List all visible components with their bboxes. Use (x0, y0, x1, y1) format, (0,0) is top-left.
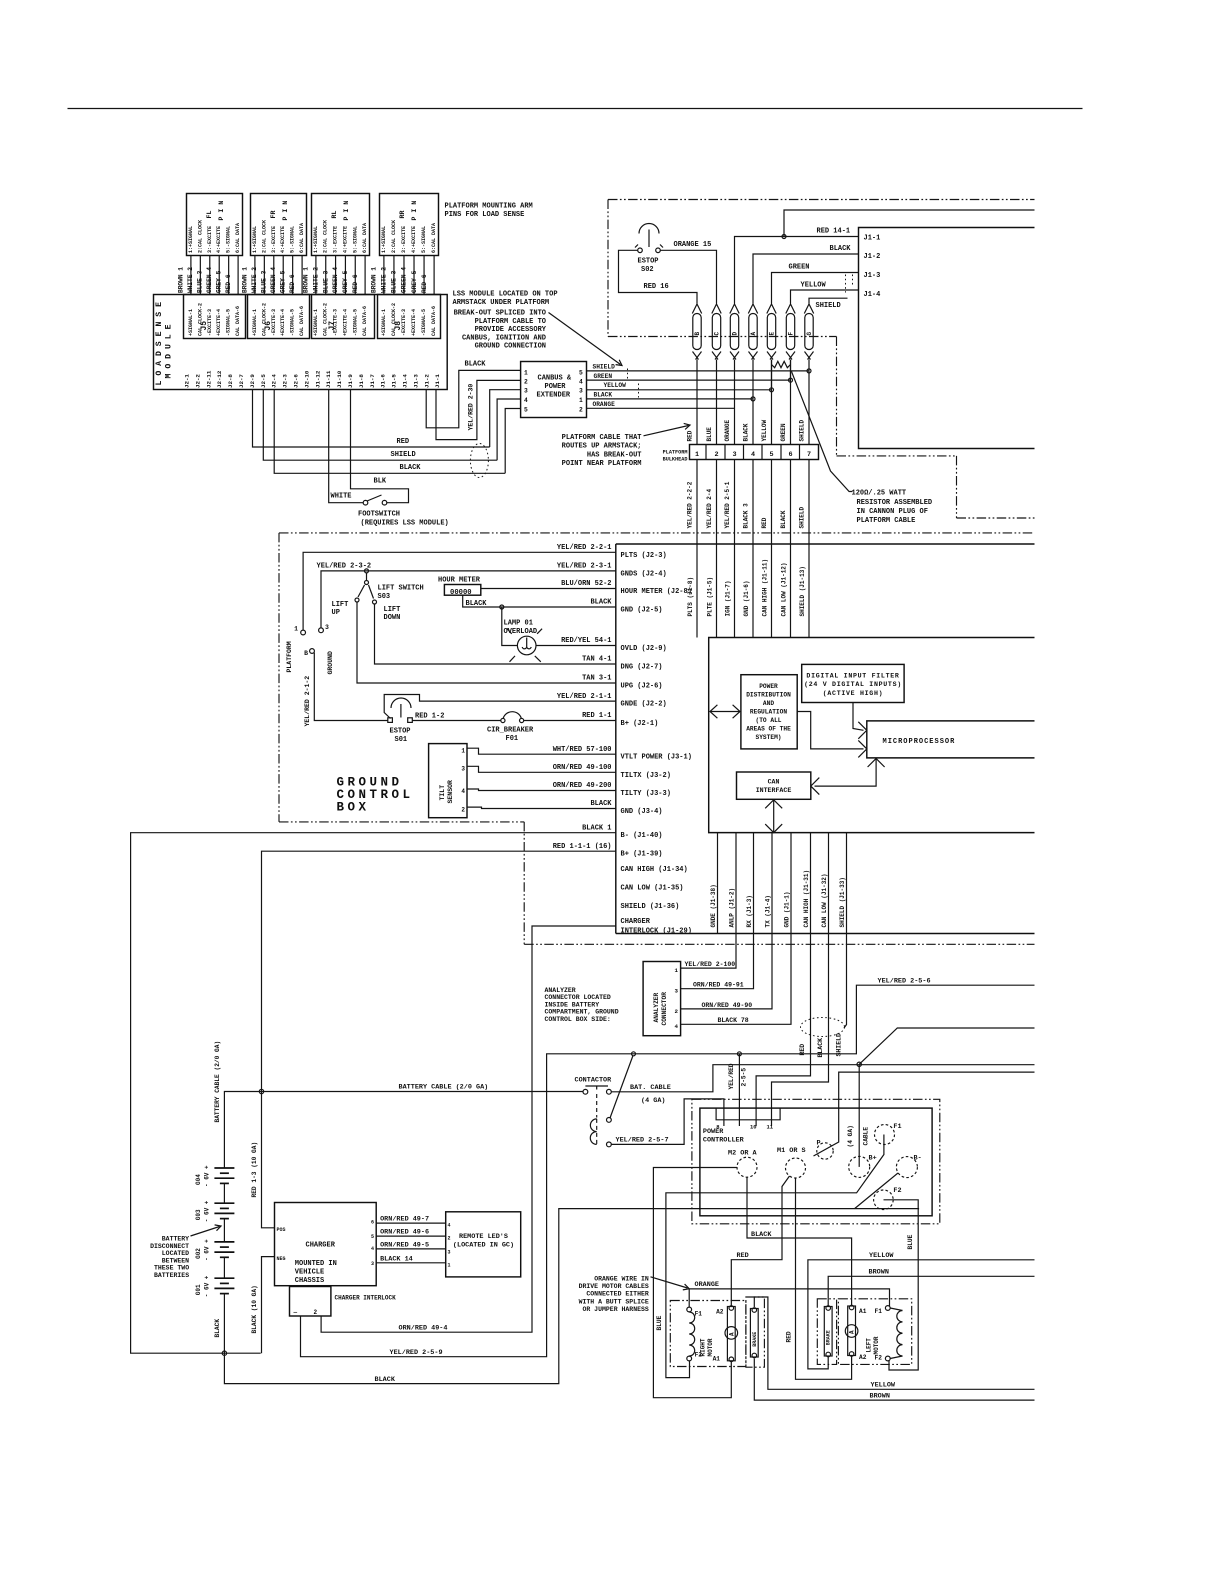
label PLATFORM (vertical) (286, 641, 293, 672)
svg-text:J1-12: J1-12 (314, 370, 321, 388)
svg-text:+EXCITE-4: +EXCITE-4 (280, 309, 286, 336)
svg-text:F2: F2 (893, 1187, 901, 1195)
node GNDS / lift switch feed (365, 569, 369, 573)
svg-text:ORN/RED 49-200: ORN/RED 49-200 (553, 782, 612, 790)
arrow digital input filter to microprocessor (853, 703, 867, 739)
svg-text:J2-3: J2-3 (282, 374, 289, 388)
svg-text:+EXCITE-4: +EXCITE-4 (411, 309, 417, 336)
wire ORN/RED 49-7 (376, 1222, 446, 1224)
connector J8 (load sense module) (378, 295, 441, 339)
label RED vertical (M1 wire) (786, 1331, 793, 1342)
svg-text:ANLP (J1-2): ANLP (J1-2) (729, 888, 736, 928)
svg-text:BLACK 14: BLACK 14 (380, 1256, 413, 1264)
svg-text:F: F (787, 332, 794, 336)
svg-text:6:CAL DATA: 6:CAL DATA (235, 223, 241, 253)
label RED 1-2 (415, 713, 444, 721)
svg-text:SHIELD (J1-33): SHIELD (J1-33) (839, 877, 846, 927)
label BLACK 14 (380, 1256, 413, 1264)
svg-text:PLATFORM CABLE TO: PLATFORM CABLE TO (475, 318, 546, 326)
svg-text:YEL/RED 2-5-1: YEL/RED 2-5-1 (724, 481, 731, 528)
node B+ feed (857, 1062, 861, 1066)
svg-text:CHARGER: CHARGER (306, 1242, 336, 1250)
connector FR PIN (platform mounting arm pin) (251, 194, 307, 256)
label ORN/RED 49-4 (399, 1325, 448, 1333)
svg-text:F1: F1 (893, 1123, 901, 1131)
label BLACK (10 GA) vertical (251, 1285, 258, 1333)
lift switch S03 common (358, 573, 374, 599)
svg-text:S03: S03 (378, 593, 391, 601)
svg-text:4: 4 (448, 1223, 451, 1229)
svg-text:10: 10 (750, 1124, 757, 1131)
node GND row / lamp branch (500, 605, 504, 609)
YELLOW bus wire (587, 389, 772, 391)
cannon plug pin C (712, 304, 721, 360)
label (4 GA) CABLE vertical (847, 1125, 870, 1147)
load sense module box (154, 295, 448, 390)
svg-text:3: 3 (371, 1261, 374, 1267)
label LIFT DOWN (384, 606, 401, 622)
svg-text:7: 7 (807, 451, 811, 459)
svg-text:SHIELD: SHIELD (593, 364, 616, 371)
svg-text:J2-4: J2-4 (271, 374, 278, 388)
wires bulkhead to ground control box (687, 460, 810, 638)
can interface block (737, 772, 811, 799)
svg-text:BLACK: BLACK (830, 245, 852, 253)
svg-text:J1-4: J1-4 (864, 291, 881, 299)
svg-text:P I N: P I N (218, 201, 225, 221)
svg-text:4:+EXCITE: 4:+EXCITE (280, 226, 286, 253)
wires RR pins to J8 (371, 256, 435, 295)
svg-text:4:+EXCITE: 4:+EXCITE (342, 226, 348, 253)
labels controller input pins (687, 559, 806, 617)
svg-text:CANBUS &: CANBUS & (538, 375, 572, 383)
battery G02 (195, 1239, 234, 1261)
label ORN/RED 49-91 (693, 982, 744, 989)
svg-text:-SIGNAL-5: -SIGNAL-5 (352, 309, 358, 336)
label BROWN (bottom) (870, 1393, 890, 1401)
svg-text:BULKHEAD: BULKHEAD (663, 457, 688, 463)
svg-text:A2: A2 (716, 1309, 724, 1316)
wire RED 1-3 node to charger POS (262, 1092, 275, 1228)
svg-text:2:CAL CLOCK: 2:CAL CLOCK (391, 220, 397, 253)
svg-text:RED: RED (687, 430, 694, 441)
wire B+ row RED 1-1-1 to battery cable node (262, 851, 616, 1091)
wire J1-2 to canbus extender pin 1 (BLACK) (426, 370, 520, 427)
svg-text:B+ (J1-39): B+ (J1-39) (621, 851, 663, 859)
svg-text:4: 4 (675, 1023, 679, 1030)
svg-text:3:-EXCITE: 3:-EXCITE (207, 226, 213, 253)
label BLACK (battery negative) (214, 1319, 221, 1338)
wire ORN/RED 49-200 tilt 4 to TILTY (467, 789, 616, 791)
wire YEL/RED 2-1-2 terminal B to estop (314, 653, 388, 721)
svg-text:RED/YEL 54-1: RED/YEL 54-1 (561, 637, 611, 645)
node BLACK-A (751, 397, 755, 401)
svg-text:J2-10: J2-10 (303, 370, 310, 388)
right motor armature (713, 1306, 738, 1363)
svg-text:B- (J1-40): B- (J1-40) (621, 832, 663, 840)
svg-text:3: 3 (325, 624, 329, 631)
arrow microprocessor to can interface (811, 759, 885, 795)
svg-text:LOCATED: LOCATED (162, 1250, 189, 1257)
svg-text:GREEN 4: GREEN 4 (270, 267, 277, 293)
gcb pin name labels (621, 552, 692, 936)
svg-text:A2: A2 (859, 1354, 867, 1361)
svg-text:5: 5 (579, 370, 583, 377)
wire G01 to negative node (223, 1294, 225, 1354)
wire J1-9 to footswitch return (351, 390, 409, 503)
svg-text:YEL/RED 2-1-1: YEL/RED 2-1-1 (557, 693, 612, 701)
svg-text:BLACK: BLACK (590, 599, 612, 607)
label ORN/RED 49-6 (380, 1229, 429, 1237)
label RIGHT MOTOR vertical (700, 1338, 715, 1356)
wire BAT CABLE 4GA contactor to B+ net (611, 1065, 1034, 1092)
wire ORN/RED 49-6 (376, 1235, 446, 1237)
svg-text:+SIGNAL-1: +SIGNAL-1 (381, 309, 387, 336)
svg-text:4: 4 (751, 451, 755, 459)
svg-text:A: A (750, 332, 757, 336)
wire RED 14-1 (pin D to J1-1) (735, 237, 859, 304)
svg-text:GREY 5: GREY 5 (279, 270, 286, 293)
label YELLOW (upper) (869, 1252, 894, 1260)
lift switch contacts (355, 598, 377, 604)
left brake (824, 1306, 832, 1357)
svg-text:EXTENDER: EXTENDER (537, 392, 571, 400)
label BLACK (vertical) (817, 1038, 824, 1058)
svg-text:B: B (304, 650, 308, 657)
double arrow can interface down (765, 800, 782, 833)
wire M2 BLACK to left motor A1 (747, 1177, 852, 1305)
svg-text:P I N: P I N (343, 201, 350, 221)
svg-text:B+ (J2-1): B+ (J2-1) (621, 720, 659, 728)
power controller top bracket (716, 1108, 780, 1120)
bus labels (593, 364, 627, 409)
svg-text:BLACK: BLACK (375, 1376, 396, 1384)
svg-text:UP: UP (332, 609, 340, 617)
svg-text:YEL/RED 2-100: YEL/RED 2-100 (685, 961, 736, 968)
svg-text:2:CAL CLOCK: 2:CAL CLOCK (261, 220, 267, 253)
svg-text:4:+EXCITE: 4:+EXCITE (216, 226, 222, 253)
svg-text:DNG (J2-7): DNG (J2-7) (621, 664, 663, 672)
wire PLTS row to platform terminal 1 (303, 552, 616, 630)
label BATTERY CABLE (2/0 GA) vertical (214, 1041, 221, 1123)
svg-text:GREEN 4: GREEN 4 (332, 267, 339, 293)
wire ORN/RED 49-100 tilt 3 to TILTX (467, 766, 616, 772)
svg-text:J1-3: J1-3 (412, 374, 419, 388)
svg-text:MOTOR: MOTOR (873, 1336, 880, 1354)
svg-text:5: 5 (371, 1234, 374, 1240)
svg-text:YEL/RED 2-4: YEL/RED 2-4 (706, 488, 713, 528)
svg-text:GNDE (J1-38): GNDE (J1-38) (710, 884, 717, 927)
svg-text:YEL/RED 2-1-2: YEL/RED 2-1-2 (304, 676, 311, 727)
stud B- (896, 1155, 921, 1178)
svg-text:BROWN 1: BROWN 1 (303, 267, 310, 293)
connector RR PIN (platform mounting arm pin) (380, 194, 439, 256)
wire BLACK tilt 2 to GND (467, 807, 616, 808)
label ORANGE 15 (674, 241, 712, 249)
svg-text:4:+EXCITE: 4:+EXCITE (411, 226, 417, 253)
label LIFT SWITCH S03 (378, 585, 424, 602)
svg-text:C: C (713, 332, 720, 336)
svg-text:YEL/RED 2-5-7: YEL/RED 2-5-7 (616, 1137, 669, 1145)
svg-text:(ACTIVE HIGH): (ACTIVE HIGH) (823, 690, 884, 697)
svg-text:D: D (731, 332, 738, 336)
svg-text:CHARGER INTERLOCK: CHARGER INTERLOCK (335, 1295, 397, 1302)
remote LEDs DS-1 (446, 1212, 521, 1277)
label GROUND (vertical) (327, 651, 334, 675)
svg-text:DRIVE MOTOR CABLES: DRIVE MOTOR CABLES (579, 1283, 649, 1290)
svg-text:J2-8: J2-8 (227, 374, 234, 388)
BLACK bus wire (587, 398, 754, 400)
svg-text:J2-6: J2-6 (293, 374, 300, 388)
svg-text:J2-2: J2-2 (194, 374, 201, 388)
text LSS MODULE LOCATED ON TOP ARMSTACK UNDER PLATFORM (453, 291, 558, 308)
svg-text:6: 6 (789, 451, 793, 459)
svg-text:TILT: TILT (439, 785, 446, 801)
label GROUND CONTROL BOX (337, 776, 414, 815)
svg-text:ORN/RED 49-100: ORN/RED 49-100 (553, 764, 612, 772)
wire canbus extender pin 5 to BLACK bus (505, 409, 520, 474)
svg-text:1: 1 (579, 397, 583, 404)
svg-text:PLATFORM CABLE: PLATFORM CABLE (857, 517, 916, 525)
svg-text:(24 V DIGITAL INPUTS): (24 V DIGITAL INPUTS) (804, 681, 902, 688)
svg-text:J1-3: J1-3 (864, 272, 881, 280)
svg-text:YEL/RED 2-30: YEL/RED 2-30 (468, 384, 475, 431)
svg-text:-SIGNAL-5: -SIGNAL-5 (290, 309, 296, 336)
wire ORN/RED 49-4 interlock to GCB (321, 926, 616, 1332)
svg-text:UPG (J2-6): UPG (J2-6) (621, 683, 663, 691)
label ORN/RED 49-5 (380, 1242, 429, 1250)
svg-text:BLUE 3: BLUE 3 (196, 270, 203, 293)
svg-text:YEL/RED 2-3-2: YEL/RED 2-3-2 (317, 563, 372, 571)
svg-text:120Ω/.25 WATT: 120Ω/.25 WATT (852, 490, 907, 498)
svg-text:BOX: BOX (337, 801, 370, 815)
wire BLACK 10GA charger NEG to negative loop (262, 1257, 275, 1354)
label POWER CONTROLLER (703, 1128, 745, 1145)
wire BLACK CAN LOW J1-32 to controller pin 11 (772, 934, 829, 1127)
leader arrow battery disconnect (191, 1225, 222, 1236)
svg-text:3: 3 (733, 451, 737, 459)
GREEN bus wire (587, 379, 791, 381)
svg-text:- 6V +: - 6V + (204, 1165, 211, 1187)
svg-text:GND (J1-1): GND (J1-1) (784, 891, 791, 927)
svg-text:PLATFORM: PLATFORM (286, 641, 293, 672)
svg-text:PLATFORM CABLE THAT: PLATFORM CABLE THAT (562, 434, 642, 442)
label PLATFORM BULKHEAD (663, 450, 688, 463)
wire YEL/RED 2-5-5 node to controller (738, 1054, 740, 1126)
svg-text:CAN LOW (J1-35): CAN LOW (J1-35) (621, 885, 684, 893)
svg-text:RED 6: RED 6 (352, 274, 359, 293)
svg-text:WITH A BUTT SPLICE: WITH A BUTT SPLICE (579, 1298, 649, 1305)
platform select terminals (294, 624, 329, 657)
svg-text:P I N: P I N (411, 201, 418, 221)
svg-text:BETWEEN: BETWEEN (162, 1257, 189, 1264)
node GREEN-F (789, 378, 793, 382)
wire M1 RED to right motor A2 (731, 1176, 789, 1306)
svg-text:BATTERIES: BATTERIES (154, 1272, 189, 1279)
wire ORANGE field jumper (689, 1289, 889, 1308)
controller inner module box (709, 638, 1035, 833)
svg-text:5:-SIGNAL: 5:-SIGNAL (290, 226, 296, 253)
svg-text:ORN/RED 49-91: ORN/RED 49-91 (693, 982, 744, 989)
svg-text:WHITE 2: WHITE 2 (312, 267, 319, 293)
svg-text:J2-5: J2-5 (260, 374, 267, 388)
label BLACK (hour meter) (466, 600, 488, 608)
top page border line (68, 108, 1083, 110)
svg-text:J8: J8 (394, 321, 403, 331)
charger output pin numbers (371, 1220, 374, 1268)
svg-text:PINS FOR LOAD SENSE: PINS FOR LOAD SENSE (445, 211, 525, 219)
svg-text:BROWN 1: BROWN 1 (242, 267, 249, 293)
svg-text:WHT/RED 57-100: WHT/RED 57-100 (553, 746, 612, 754)
node YELLOW-E (770, 388, 774, 392)
ground control box dash-dot boundary (279, 533, 1035, 944)
gcb wire labels (553, 544, 613, 851)
cannon plug pin F (786, 304, 795, 360)
label BAT. CABLE (4 GA) (630, 1084, 671, 1105)
svg-text:GND (J1-6): GND (J1-6) (743, 580, 750, 616)
svg-text:DIGITAL INPUT FILTER: DIGITAL INPUT FILTER (806, 673, 899, 680)
leader line resistor to note (792, 372, 853, 492)
svg-text:INTERLOCK (J1-29): INTERLOCK (J1-29) (621, 928, 692, 936)
svg-text:SHIELD: SHIELD (799, 506, 806, 528)
label YEL/RED 2-1-2 (vertical) (304, 676, 311, 727)
svg-text:4: 4 (579, 378, 583, 385)
label CHARGER INTERLOCK (335, 1295, 397, 1302)
wire GNDS row to ground terminal 3 (321, 571, 616, 628)
svg-text:J1-2: J1-2 (423, 374, 430, 388)
svg-text:BLK: BLK (374, 478, 387, 486)
svg-text:GNDS (J2-4): GNDS (J2-4) (621, 570, 667, 578)
svg-text:BLACK (10 GA): BLACK (10 GA) (251, 1285, 258, 1333)
svg-text:THESE TWO: THESE TWO (154, 1265, 189, 1272)
svg-text:RED: RED (737, 1252, 749, 1260)
wire YEL/RED 2-5-7 contactor coil to pin 8 (611, 1099, 724, 1145)
svg-text:E: E (768, 332, 775, 336)
label YEL/RED 2-5-9 (390, 1349, 443, 1357)
svg-text:RED: RED (397, 438, 410, 446)
svg-text:F1: F1 (875, 1308, 883, 1315)
svg-text:NEG: NEG (277, 1256, 286, 1262)
svg-text:J2-9: J2-9 (249, 374, 256, 388)
label BLACK (465, 361, 487, 369)
svg-text:DISCONNECT: DISCONNECT (150, 1243, 189, 1250)
svg-text:3:-EXCITE: 3:-EXCITE (333, 226, 339, 253)
svg-text:RR: RR (399, 211, 406, 219)
label BLACK (830, 245, 852, 253)
svg-text:BLACK: BLACK (400, 464, 422, 472)
wires FR pins to J6 (242, 256, 303, 295)
svg-text:ORN/RED 49-90: ORN/RED 49-90 (702, 1002, 753, 1009)
svg-text:J1-9: J1-9 (347, 374, 354, 388)
svg-text:M1 OR S: M1 OR S (777, 1147, 806, 1155)
svg-text:TX (J1-4): TX (J1-4) (765, 895, 772, 927)
svg-text:GREY 5: GREY 5 (215, 270, 222, 293)
label BLACK (M2 wire) (751, 1231, 772, 1239)
svg-text:2: 2 (524, 378, 528, 385)
svg-text:DOWN: DOWN (384, 614, 401, 622)
svg-text:F2: F2 (875, 1355, 883, 1362)
svg-text:COMPARTMENT, GROUND: COMPARTMENT, GROUND (545, 1009, 619, 1016)
svg-text:MICROPROCESSOR: MICROPROCESSOR (883, 738, 956, 746)
right brake dash-dot box (746, 1297, 765, 1367)
svg-text:4: 4 (371, 1246, 374, 1252)
canbus & power extender U-CB (521, 362, 587, 418)
node on RED 14-1 (782, 235, 786, 239)
module bottom pin labels J2-x / J1-x (184, 370, 442, 388)
svg-text:CAN HIGH (J1-11): CAN HIGH (J1-11) (762, 559, 769, 617)
svg-text:S02: S02 (641, 266, 654, 274)
label LIFT UP (332, 601, 349, 617)
svg-text:J1-10: J1-10 (336, 370, 343, 388)
label YELLOW (bottom) (871, 1382, 896, 1390)
wire BLACK 78 analyzer 4 (681, 934, 791, 1025)
svg-text:BAT. CABLE: BAT. CABLE (630, 1084, 671, 1092)
svg-text:BATTERY: BATTERY (162, 1236, 189, 1243)
wire canbus extender pin 4 to SHIELD bus (497, 399, 520, 460)
connector J7 (load sense module) (312, 295, 375, 339)
svg-text:BLUE: BLUE (907, 1234, 914, 1249)
stud B+ (849, 1155, 877, 1178)
cannon plug pin G (804, 304, 813, 360)
svg-text:POWER: POWER (759, 683, 778, 690)
svg-text:REMOTE LED'S: REMOTE LED'S (459, 1233, 508, 1241)
analyzer connector J-AN (643, 962, 681, 1036)
microprocessor block (867, 721, 1035, 758)
svg-text:CAL DATA-6: CAL DATA-6 (299, 306, 305, 336)
svg-text:BROWN: BROWN (870, 1393, 890, 1401)
label FOOTSWITCH (REQUIRES LSS MODULE) (358, 511, 449, 528)
svg-text:BATTERY CABLE (2/0 GA): BATTERY CABLE (2/0 GA) (214, 1041, 221, 1123)
label BLUE vertical (M2 wire) (656, 1315, 663, 1330)
digital input filter block (802, 664, 904, 702)
svg-text:MOTOR: MOTOR (707, 1338, 714, 1356)
leader arrow platform cable (644, 423, 691, 435)
controller outer box (616, 543, 1035, 545)
svg-text:LSS MODULE LOCATED ON TOP: LSS MODULE LOCATED ON TOP (453, 291, 558, 299)
svg-text:SHIELD: SHIELD (799, 419, 806, 441)
labels J1-1..J1-4 (864, 235, 881, 300)
node battery cable junction (259, 1089, 263, 1093)
svg-text:J2-7: J2-7 (238, 374, 245, 388)
node contactor coil branch (632, 1052, 636, 1056)
svg-text:IGN (J1-7): IGN (J1-7) (725, 580, 732, 616)
svg-text:-SIGNAL-5: -SIGNAL-5 (226, 309, 232, 336)
svg-text:11: 11 (767, 1124, 774, 1131)
svg-text:IN CANNON PLUG OF: IN CANNON PLUG OF (857, 508, 928, 516)
svg-text:MOUNTED IN: MOUNTED IN (295, 1260, 337, 1268)
wire canbus extender pin 3 to RED bus (490, 390, 521, 447)
svg-text:BROWN 1: BROWN 1 (371, 267, 378, 293)
svg-text:INSIDE BATTERY: INSIDE BATTERY (545, 1001, 600, 1008)
svg-text:FR: FR (270, 211, 277, 219)
svg-text:RED 6: RED 6 (225, 274, 232, 293)
connector J6 (load sense module) (248, 295, 310, 339)
svg-text:5: 5 (524, 407, 528, 414)
svg-text:(TO ALL: (TO ALL (756, 717, 782, 724)
wire WHT/RED 57-100 tilt 1 to VTLT (467, 748, 616, 754)
svg-text:A1: A1 (859, 1308, 867, 1315)
text ORANGE WIRE IN DRIVE MOTOR CABLES ... (579, 1276, 649, 1313)
svg-text:POWER: POWER (545, 383, 567, 391)
svg-text:FOOTSWITCH: FOOTSWITCH (358, 511, 400, 519)
terminating resistor 120 ohm (between pins E and F) (772, 360, 791, 390)
svg-text:CAN HIGH (J1-34): CAN HIGH (J1-34) (621, 866, 688, 874)
wire YELLOW (pin F to J1-4) (791, 290, 859, 304)
upper YELLOW wire to left brake (808, 1260, 1035, 1369)
left motor armature (845, 1305, 866, 1361)
contactor K1 (583, 1086, 611, 1147)
wire RED 16 (estop S02 to pin B) (619, 250, 698, 303)
